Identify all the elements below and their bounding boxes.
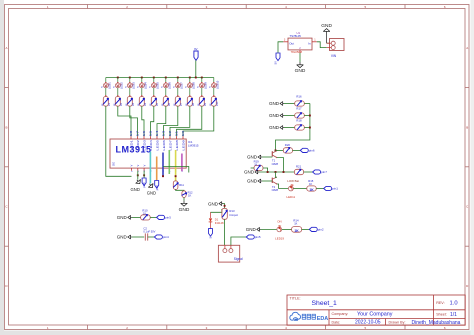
connector P1 VIN [330,39,345,51]
svg-text:In: In [308,42,311,46]
svg-text:9V: 9V [194,47,198,51]
ground flag cyan net [147,182,155,190]
resistor R15 1K [307,186,316,191]
svg-text:A: A [5,46,7,50]
svg-text:LED9: LED9 [203,82,207,89]
wire T1 emitter down [277,158,284,172]
svg-text:GND: GND [208,201,219,206]
resistor R9 1K [199,97,204,107]
svg-text:1.0: 1.0 [450,301,458,307]
svg-text:R16: R16 [296,95,302,99]
svg-text:0.1uF 50V: 0.1uF 50V [143,230,155,234]
LED D4 (LED4) [141,78,143,84]
wire LED1 column to IC pin1 (around left) [106,106,132,176]
svg-text:LED1: LED1 [107,82,111,89]
wire LED9 column to IC top pin [177,106,202,136]
wire R13 to signal connector [224,219,226,245]
resistor R10 1K [211,97,216,107]
wire R11 to R12 [176,189,184,190]
wire regulator gnd [299,53,301,62]
wire R19 left [251,167,254,169]
svg-text:GND: GND [295,68,306,74]
IC bottom pins [131,168,133,171]
svg-text:GND: GND [179,207,190,213]
wire gnd to C2 [132,236,144,238]
junction on LED bus [153,77,155,79]
wire R21 to port [304,171,313,173]
svg-text:pin6: pin6 [309,149,315,153]
resistor R2 1K [115,97,120,107]
wire from pin6 out right side of IC [163,167,189,173]
svg-text:LED1: LED1 [129,140,133,151]
wire 9V to LED bus [195,60,197,77]
svg-text:C828: C828 [272,188,279,192]
svg-text:GND: GND [246,227,257,232]
svg-text:pin5: pin5 [255,235,261,239]
resistor R14 1K [292,227,302,233]
svg-text:LED11: LED11 [286,195,295,199]
svg-text:R17: R17 [296,107,302,111]
net flag 5V out [276,53,280,61]
svg-text:VIN: VIN [331,54,337,58]
svg-text:SIG: SIG [113,162,116,166]
diode D1 1N4148 [209,218,212,221]
resistor R5 1K [151,97,156,107]
LED anode bus wire [106,77,214,79]
net flag 9V supply [194,51,198,60]
svg-text:GND: GND [269,101,280,106]
resistor R6 1K [163,97,168,107]
wire pin3 stub [143,171,145,178]
LED D1 (LED1) [105,78,107,84]
svg-text:Company:: Company: [332,312,349,316]
svg-text:A: A [466,46,468,50]
net port pin4 [154,235,162,239]
svg-text:GND: GND [147,191,156,196]
wire R10 to port [150,216,156,218]
junction row dots [267,171,269,173]
svg-text:R10: R10 [216,101,219,106]
wire LED19 to R14 [282,228,292,230]
ground below R12 [183,201,185,204]
LED D5 (LED5) [153,78,155,84]
wire to R20 [276,149,284,151]
junctions under IC [137,174,139,176]
svg-text:C828: C828 [272,162,279,166]
svg-text:R20: R20 [285,143,291,147]
wire signal to port [231,237,246,245]
resistor R19 1K [254,165,263,170]
ground below regulator [299,62,301,65]
svg-text:pin5: pin5 [165,216,171,220]
transistor T1 C828 [271,151,273,156]
svg-text:R18: R18 [296,119,302,123]
LED D2 (LED2) [117,78,119,84]
svg-text:ON: ON [277,219,281,223]
svg-text:LED2: LED2 [136,140,140,151]
wire orange net pin5 [156,157,158,181]
svg-text:LED3: LED3 [131,82,135,89]
capacitor C2 0.1uF 50V [144,233,146,240]
wire LED11 to R15 [293,188,306,190]
border ticks left/right [5,86,9,88]
resistor R11 [173,181,178,190]
svg-text:78L05CZ: 78L05CZ [291,50,303,54]
EDA logo [290,312,301,320]
resistor R13 trimpot [222,208,227,219]
svg-text:1K: 1K [309,188,314,192]
wire R12 to ground [183,197,185,200]
IC U1 LM3915 body [110,139,186,168]
wire pale green net pin7 [168,150,170,174]
wire R19 to junction row [263,168,268,172]
wire R17 to rail [304,115,310,117]
svg-text:2022-10-05: 2022-10-05 [355,320,381,326]
wire dark blue net pin6 [162,153,164,178]
resistor R8 1K [187,97,192,107]
LED D8 (LED8) [189,78,191,84]
svg-text:trimpot: trimpot [229,213,238,217]
svg-text:LED4: LED4 [143,82,147,89]
svg-text:1K: 1K [309,182,312,186]
wire branch to D1 [211,209,222,212]
wire gnd to R17 [284,115,295,117]
svg-text:GND: GND [247,179,258,184]
wire LED10 column to IC top pin [183,106,214,136]
net port pin1 [324,186,332,190]
svg-text:GND: GND [117,215,128,220]
LED D6 (LED6) [165,78,167,84]
resistor R21 (trim) [294,169,303,174]
svg-text:Signal: Signal [234,257,243,261]
title block frame [287,295,465,325]
svg-text:Date:: Date: [332,320,341,324]
resistor R10 1K (trim) [141,215,151,220]
svg-text:LED6: LED6 [162,140,166,151]
wire T1 collector [276,149,278,151]
net flag below D1 [209,229,213,237]
junction on LED bus [201,77,203,79]
wire R16 to rail [304,103,310,105]
wire regulator in to VIN connector [317,42,327,48]
LED D9 (LED9) [201,78,203,84]
svg-text:LM3915: LM3915 [188,144,199,148]
LED D3 (LED3) [129,78,131,84]
svg-text:1K: 1K [254,162,257,166]
svg-text:1K: 1K [143,211,146,215]
svg-text:pin1: pin1 [332,187,338,191]
svg-text:LED7: LED7 [168,140,172,151]
ground flag under pin2 [134,178,142,186]
svg-text:LED9: LED9 [181,140,185,151]
svg-text:LED4: LED4 [149,140,153,151]
svg-text:GND: GND [131,187,140,192]
wire cyan net pin4 [149,152,151,184]
resistor R18 1K [295,125,305,130]
svg-text:LED19: LED19 [275,236,284,240]
border ticks top/bottom [86,5,88,9]
svg-text:LED8: LED8 [191,82,195,89]
svg-text:Your Company: Your Company [357,311,393,317]
svg-text:LED10: LED10 [215,80,219,89]
wiper rail wire [276,104,310,151]
resistor R4 1K [139,97,144,107]
wire junction row [259,171,294,173]
svg-text:Dineth_Madubashana: Dineth_Madubashana [412,320,461,326]
svg-text:LED3: LED3 [142,140,146,151]
net port pin7 [313,170,321,174]
regulator pins [283,41,288,43]
svg-text:LED8: LED8 [175,140,179,151]
regulator U1 78L05 body [288,38,312,50]
svg-text:GND: GND [269,113,280,118]
svg-text:pin7: pin7 [321,170,327,174]
wire R20 to port [293,149,301,151]
wire LED4 column to IC top pin [142,106,144,136]
svg-text:Drawn By:: Drawn By: [389,320,406,324]
svg-text:LED2: LED2 [119,82,123,89]
wire R18 to rail [304,127,310,129]
net port pin5 [157,215,165,219]
wire gnd to LED19 [261,228,277,230]
wire R15 to port [316,188,324,190]
LED D10 (LED10) [213,78,215,84]
wire LED8 column to IC top pin [170,106,190,136]
resistor R17 1K [295,113,305,118]
svg-text:1K: 1K [294,229,299,233]
junction on LED bus [189,77,191,79]
resistor R7 1K [175,97,180,107]
LED D7 (LED7) [177,78,179,84]
wire LED2 column to IC top pin [118,106,131,136]
svg-text:LED5: LED5 [155,82,159,89]
svg-text:GND: GND [244,170,255,175]
svg-text:pin2: pin2 [318,228,324,232]
junction on LED bus [177,77,179,79]
svg-text:LED5: LED5 [155,140,159,151]
wire yellow net pin8 [175,150,177,181]
svg-text:R21: R21 [296,165,302,169]
svg-text:1/1: 1/1 [450,312,457,318]
wire gnd to R10 [132,216,141,218]
net port pin5 signal [246,235,254,239]
resistor R12 1K [182,191,186,198]
svg-text:B: B [5,125,7,129]
junction on LED bus [165,77,167,79]
resistor R3 1K [127,97,132,107]
junction 9V flag on bus [195,77,197,79]
wire R14 to port [302,228,310,230]
svg-text:Sheet_1: Sheet_1 [312,300,338,307]
svg-text:EDA: EDA [317,316,328,322]
IC top pins [130,136,132,139]
resistor R16 1K [295,101,305,106]
junction on LED bus [117,77,119,79]
junction R20 row [275,149,277,151]
svg-text:GND: GND [269,125,280,130]
junction on LED bus [141,77,143,79]
svg-text:REV:: REV: [436,301,444,305]
resistor R20 (trim) [283,148,292,153]
wire C2 to port [148,236,155,238]
wire T2 emitter to LED11 [277,184,288,189]
svg-text:LOW Bat: LOW Bat [287,179,299,183]
svg-text:5V: 5V [209,235,213,238]
svg-text:TS78L05: TS78L05 [290,34,302,38]
wire regulator out to 5V flag [278,42,283,53]
net flag under pin3 [142,178,146,186]
svg-text:pin4: pin4 [163,235,169,239]
svg-text:LED7: LED7 [179,82,183,89]
wire gnd to VIN top pin [327,42,330,44]
canvas margin [0,0,4,335]
svg-text:GND: GND [321,23,332,29]
svg-text:pin9: pin9 [155,185,159,190]
svg-text:Sheet:: Sheet: [436,313,447,317]
svg-text:GND: GND [117,235,128,240]
svg-text:R11: R11 [179,183,184,187]
junction rail R18 [309,127,311,129]
wire LED7 column to IC top pin [164,106,178,136]
junction rail R17 [309,115,311,117]
wire magenta net pin9 [181,154,183,172]
net flag orange net [155,181,159,189]
transistor T2 C828 [271,178,273,183]
wire gnd to R16 [284,103,295,105]
svg-text:TITLE:: TITLE: [290,296,301,300]
svg-text:LED6: LED6 [167,82,171,89]
svg-text:Out: Out [289,42,294,46]
wire T2 collector up [275,172,277,178]
svg-text:5V: 5V [274,61,278,64]
wire pin2 stub [137,171,139,180]
wire gnd to R18 [284,127,295,129]
connector P2 Signal [218,245,239,262]
svg-text:1K: 1K [294,222,297,226]
net port pin6 [300,148,308,152]
svg-text:1K: 1K [188,194,191,198]
svg-text:B: B [466,125,468,129]
wire LED6 column to IC top pin [157,106,166,136]
wire LED3 column to IC top pin [130,106,138,136]
resistor R1 1K [103,97,108,107]
wire gnd to R13 [223,204,225,209]
junction on LED bus [129,77,131,79]
net port pin2 [309,227,317,231]
wire LED5 column to IC top pin [151,106,154,136]
svg-text:IN4148: IN4148 [215,221,224,225]
svg-text:pin8: pin8 [142,182,146,187]
